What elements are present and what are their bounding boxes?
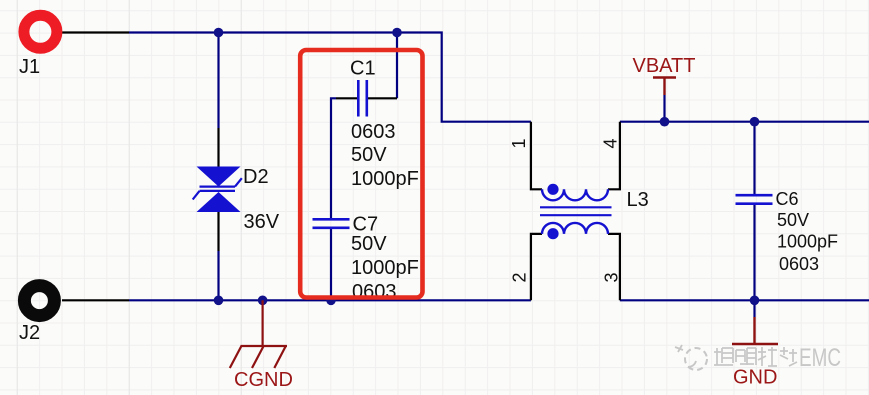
capacitor C7 plates (blue, horizontal) bbox=[313, 219, 350, 228]
diode D2 crossbar (z-bar) bbox=[193, 178, 242, 199]
svg-text:3: 3 bbox=[602, 272, 622, 282]
capacitor C6 refdes label bbox=[776, 189, 799, 209]
svg-text:D2: D2 bbox=[243, 166, 269, 188]
svg-text:0603: 0603 bbox=[779, 254, 819, 274]
svg-text:50V: 50V bbox=[351, 233, 387, 255]
inductor L3 refdes label bbox=[627, 189, 649, 211]
svg-text:1000pF: 1000pF bbox=[351, 257, 419, 279]
connector J1 (red ring) bbox=[24, 15, 57, 48]
diode D2 refdes label bbox=[243, 166, 269, 188]
svg-text:1: 1 bbox=[509, 138, 529, 148]
capacitor C1 value label 1000pF bbox=[351, 168, 419, 190]
wire VBATT stem lower (navy) bbox=[663, 95, 665, 122]
svg-text:EMC: EMC bbox=[799, 344, 841, 372]
power port GND stem and bar (dark red) bbox=[732, 317, 778, 344]
connector J2 (black ring) bbox=[24, 286, 54, 316]
svg-text:2: 2 bbox=[510, 272, 530, 282]
inductor L3 pin 2 lead bbox=[531, 234, 542, 300]
pin number 1 bbox=[509, 138, 529, 148]
diode D2 pins (black) bbox=[217, 128, 219, 251]
junction node C6/GND bottom bbox=[750, 296, 760, 306]
wire C6 bottom to bottom rail bbox=[753, 224, 755, 300]
capacitor C7 value label 50V bbox=[351, 233, 387, 255]
svg-text:L3: L3 bbox=[627, 189, 649, 211]
connector J1 pin (black) bbox=[62, 31, 129, 33]
capacitor C1 value label 50V bbox=[351, 144, 387, 166]
inductor L3 pin 4 lead bbox=[608, 122, 620, 190]
wire stub from C1 right lead up to node A bbox=[396, 33, 398, 99]
pin number 2 bbox=[510, 272, 530, 282]
watermark EMC text bbox=[799, 344, 841, 372]
junction node D2 bottom rail bbox=[214, 296, 224, 306]
junction node C7 bottom bbox=[326, 296, 336, 306]
diode D2 value label 36V bbox=[244, 211, 280, 233]
svg-text:J2: J2 bbox=[19, 322, 40, 344]
inductor L3 polarity dot top bbox=[547, 184, 558, 195]
wire C1 left lead down to C7 bbox=[331, 98, 336, 199]
capacitor C6 pins bbox=[753, 175, 755, 224]
svg-text:GND: GND bbox=[733, 367, 777, 389]
inductor L3 core lines (blue) bbox=[540, 207, 612, 215]
wire C6 top branch bbox=[753, 122, 755, 175]
svg-text:50V: 50V bbox=[777, 210, 809, 230]
capacitor C1 pins (black) bbox=[336, 97, 397, 99]
power port VBATT stem and bar (dark red) bbox=[653, 78, 676, 96]
watermark hanzi (approximation) bbox=[714, 347, 797, 366]
wire D2 lower to bottom rail bbox=[217, 251, 219, 300]
wire bottom right rail: L3 pin 3 to right edge bbox=[620, 299, 869, 301]
inductor L3 pin 3 lead bbox=[608, 234, 620, 300]
chassis ground CGND symbol bbox=[230, 346, 287, 368]
svg-text:C1: C1 bbox=[350, 58, 376, 80]
connector J2 pin (black) bbox=[62, 299, 129, 301]
capacitor C1 value label 0603 bbox=[351, 121, 396, 143]
svg-text:J1: J1 bbox=[19, 56, 40, 78]
capacitor C6 value label 0603 bbox=[779, 254, 819, 274]
wire C7 bottom to bottom rail bbox=[330, 248, 332, 300]
connector J1 label bbox=[19, 56, 40, 78]
TVS diode D2 (bidirectional, blue) bbox=[197, 167, 241, 213]
junction node at D2 top rail bbox=[214, 28, 224, 38]
common-mode choke L3 top winding (blue) bbox=[542, 189, 608, 200]
capacitor C6 value label 50V bbox=[777, 210, 809, 230]
capacitor C1 refdes label bbox=[350, 58, 376, 80]
svg-text:0603: 0603 bbox=[351, 121, 396, 143]
chassis ground CGND label bbox=[234, 369, 293, 391]
wire net A: J1 top rail to L3 pin 1 bbox=[129, 33, 531, 122]
pin number 3 bbox=[602, 272, 622, 282]
wire top right rail: L3 pin 4 to right edge bbox=[620, 121, 869, 123]
wire bottom rail left: J2 to L3 pin 2 bbox=[129, 299, 531, 301]
capacitor C6 value label 1000pF bbox=[777, 232, 838, 252]
inductor L3 pin 1 lead bbox=[531, 122, 542, 190]
connector J2 label bbox=[19, 322, 40, 344]
wire vertical branch to D2 bbox=[217, 33, 219, 129]
capacitor C7 refdes label bbox=[353, 214, 379, 236]
svg-text:1000pF: 1000pF bbox=[777, 232, 838, 252]
svg-text:1000pF: 1000pF bbox=[351, 168, 419, 190]
power port VBATT label bbox=[633, 55, 696, 77]
capacitor C6 plates (blue, horizontal) bbox=[736, 195, 773, 204]
svg-text:C6: C6 bbox=[776, 189, 799, 209]
red highlight box around C1/C7 bbox=[300, 50, 422, 298]
watermark logo circle bbox=[675, 345, 707, 370]
capacitor C7 pins bbox=[330, 199, 332, 248]
capacitor C7 value label 1000pF bbox=[351, 257, 419, 279]
capacitor C7 value label 0603 bbox=[352, 281, 397, 303]
pin number 4 bbox=[601, 138, 621, 148]
inductor L3 bottom winding (blue) bbox=[542, 223, 608, 234]
svg-text:VBATT: VBATT bbox=[633, 55, 696, 77]
power port GND label bbox=[733, 367, 777, 389]
junction node VBATT rail bbox=[660, 117, 670, 127]
svg-text:36V: 36V bbox=[244, 211, 280, 233]
svg-text:50V: 50V bbox=[351, 144, 387, 166]
svg-text:CGND: CGND bbox=[234, 369, 293, 391]
junction node at C1 top rail bbox=[392, 28, 402, 38]
capacitor C1 plates (blue, vertical) bbox=[358, 80, 367, 117]
inductor L3 polarity dot bottom bbox=[547, 228, 558, 239]
junction node CGND tap bbox=[258, 296, 268, 306]
junction node C6 top bbox=[750, 117, 760, 127]
wire GND stem upper (navy) bbox=[753, 300, 755, 317]
chassis ground CGND stem (dark red) bbox=[262, 300, 264, 346]
svg-text:4: 4 bbox=[601, 138, 621, 148]
